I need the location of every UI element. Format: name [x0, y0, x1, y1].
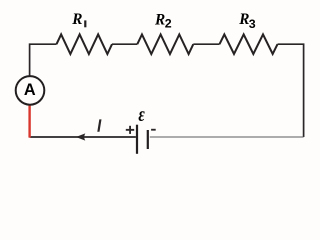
wire: R2 to R3 [193, 43, 219, 45]
label + (positive terminal) [126, 126, 134, 134]
ammeter A [16, 76, 45, 105]
label R3 [238, 11, 256, 31]
svg-text:R: R [154, 11, 165, 28]
svg-text:2: 2 [165, 17, 172, 31]
wire: red segment (lower-left corner to ammeter bottom) [28, 105, 30, 138]
label R1 [71, 11, 86, 28]
resistor R1 [57, 34, 113, 54]
label R2 [154, 11, 172, 30]
svg-text:A: A [24, 81, 36, 99]
negative plate (short) [147, 130, 149, 149]
wire: bottom right (right corner to battery negative) [150, 136, 304, 138]
wire: top-left corner (ammeter top to R1) [30, 44, 57, 76]
svg-text:ε: ε [138, 105, 144, 126]
label - (negative terminal) [151, 129, 156, 131]
wire: R3 to top-right corner, down right side [278, 44, 304, 137]
svg-text:R: R [71, 11, 82, 28]
positive plate (long) [136, 125, 138, 154]
wire: bottom left (battery positive to lower-left corner) [30, 136, 136, 138]
label ε (EMF) [138, 105, 144, 126]
resistor R3 [220, 34, 278, 54]
resistor R2 [137, 34, 193, 54]
current arrow I (pointing left) [76, 133, 85, 140]
svg-text:3: 3 [249, 17, 256, 31]
label I (current) [97, 119, 101, 131]
wire: R1 to R2 [112, 43, 137, 45]
battery ε (EMF source) [136, 125, 149, 154]
